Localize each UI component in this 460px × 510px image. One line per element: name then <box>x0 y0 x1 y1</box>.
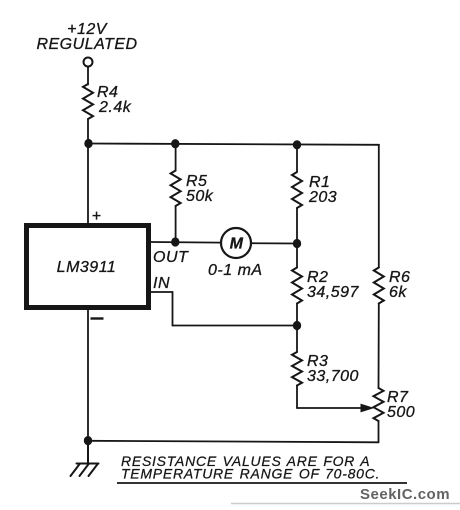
svg-text:203: 203 <box>308 189 337 206</box>
wiper arrowhead <box>361 404 375 413</box>
meter M <box>221 228 251 258</box>
terminal +12V supply <box>84 58 93 67</box>
wire R2 to node <box>296 304 298 326</box>
wire IN vertical <box>172 292 174 326</box>
svg-text:500: 500 <box>387 404 415 421</box>
wire node to R1 <box>296 145 298 172</box>
resistor R6 <box>374 268 384 304</box>
svg-text:34,597: 34,597 <box>307 284 360 301</box>
wire node to R2 <box>296 244 298 268</box>
wire top horizontal bus <box>88 144 379 145</box>
svg-text:M: M <box>230 236 244 253</box>
wire R7 to bottom rail <box>378 421 380 442</box>
svg-text:LM3911: LM3911 <box>57 259 117 276</box>
wire right rail down to R6 <box>378 145 380 268</box>
watermark rule <box>231 503 460 505</box>
svg-text:2.4k: 2.4k <box>98 99 132 116</box>
resistor R3 <box>292 352 302 386</box>
svg-text:IN: IN <box>153 275 170 292</box>
wire IN to R2-R3 node <box>173 325 298 327</box>
wire node to R3 <box>296 326 298 353</box>
wire left rail to LM3911 plus pin <box>87 144 89 226</box>
svg-text:+: + <box>92 208 102 225</box>
wire terminal to R4 <box>87 67 89 85</box>
wire meter to R2 node <box>251 242 297 244</box>
wire OUT pin to meter <box>151 241 221 244</box>
wire R4 to node A <box>87 119 89 144</box>
node A junction <box>84 139 92 148</box>
resistor R4 <box>83 84 93 119</box>
potentiometer R7 <box>374 388 384 421</box>
resistor R5 <box>171 171 181 207</box>
wire bottom rail <box>88 441 379 443</box>
svg-text:OUT: OUT <box>153 249 189 266</box>
wire R1 to meter node <box>296 208 298 244</box>
node meter-R1-R2 junction <box>293 239 301 248</box>
node R2-R3-IN junction <box>293 321 301 330</box>
node R1 top junction <box>293 140 301 149</box>
wire R3 down to wiper run <box>296 386 298 409</box>
svg-text:6k: 6k <box>389 284 407 301</box>
svg-text:SeekIC.com: SeekIC.com <box>360 486 450 503</box>
wire R5 to OUT node <box>175 206 177 242</box>
wire node to R5 <box>175 144 177 171</box>
resistor R2 <box>292 268 302 304</box>
svg-text:TEMPERATURE RANGE OF 70-80C.: TEMPERATURE RANGE OF 70-80C. <box>121 466 380 482</box>
svg-text:33,700: 33,700 <box>307 368 359 385</box>
node R5 top junction <box>171 139 179 148</box>
wire LM3911 minus pin to ground node <box>87 309 89 441</box>
wire IN pin horizontal <box>151 291 173 293</box>
wire wiper arm to R7 <box>297 407 362 409</box>
node ground junction <box>84 436 92 445</box>
ground <box>71 441 99 476</box>
svg-text:0-1 mA: 0-1 mA <box>208 262 263 279</box>
IC U1 LM3911 body <box>27 226 149 308</box>
node OUT junction <box>171 237 179 246</box>
pin - label <box>91 317 104 319</box>
svg-text:50k: 50k <box>186 188 214 205</box>
wire R6 to R7 <box>378 304 380 389</box>
note underline <box>117 482 407 484</box>
resistor R1 <box>292 172 302 208</box>
svg-text:REGULATED: REGULATED <box>36 36 137 53</box>
